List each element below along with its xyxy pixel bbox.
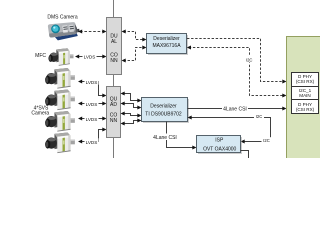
svg-text:I2C: I2C <box>256 114 263 119</box>
svg-text:(CSI RX): (CSI RX) <box>296 107 315 112</box>
svg-text:MAIN: MAIN <box>299 93 310 98</box>
svg-text:LVDS: LVDS <box>86 117 98 122</box>
svg-text:MAX96716A: MAX96716A <box>152 43 181 49</box>
svg-text:LVDS: LVDS <box>86 80 98 85</box>
svg-text:OVT OAX4000: OVT OAX4000 <box>203 147 236 153</box>
svg-text:LVDS: LVDS <box>84 55 96 60</box>
svg-text:Deserializer: Deserializer <box>153 36 180 42</box>
svg-text:I2C: I2C <box>246 57 253 62</box>
svg-text:AL: AL <box>111 39 117 45</box>
svg-text:NN: NN <box>110 58 118 64</box>
svg-text:AD: AD <box>110 102 117 108</box>
svg-text:I2C: I2C <box>263 138 270 143</box>
svg-text:LVDS: LVDS <box>86 102 98 107</box>
svg-text:(CSI RX): (CSI RX) <box>296 79 315 84</box>
svg-text:DMS Camera: DMS Camera <box>47 14 78 20</box>
svg-text:LVDS: LVDS <box>86 140 98 145</box>
svg-text:4Lane CSI: 4Lane CSI <box>223 107 247 113</box>
svg-text:MFC: MFC <box>35 53 46 59</box>
svg-text:TI DS90UB9702: TI DS90UB9702 <box>145 112 182 118</box>
svg-text:Camera: Camera <box>31 111 49 117</box>
svg-text:4Lane CSI: 4Lane CSI <box>153 135 177 141</box>
svg-text:NN: NN <box>110 118 118 124</box>
svg-text:Deserializer: Deserializer <box>150 103 177 109</box>
svg-text:ISP: ISP <box>215 138 224 144</box>
